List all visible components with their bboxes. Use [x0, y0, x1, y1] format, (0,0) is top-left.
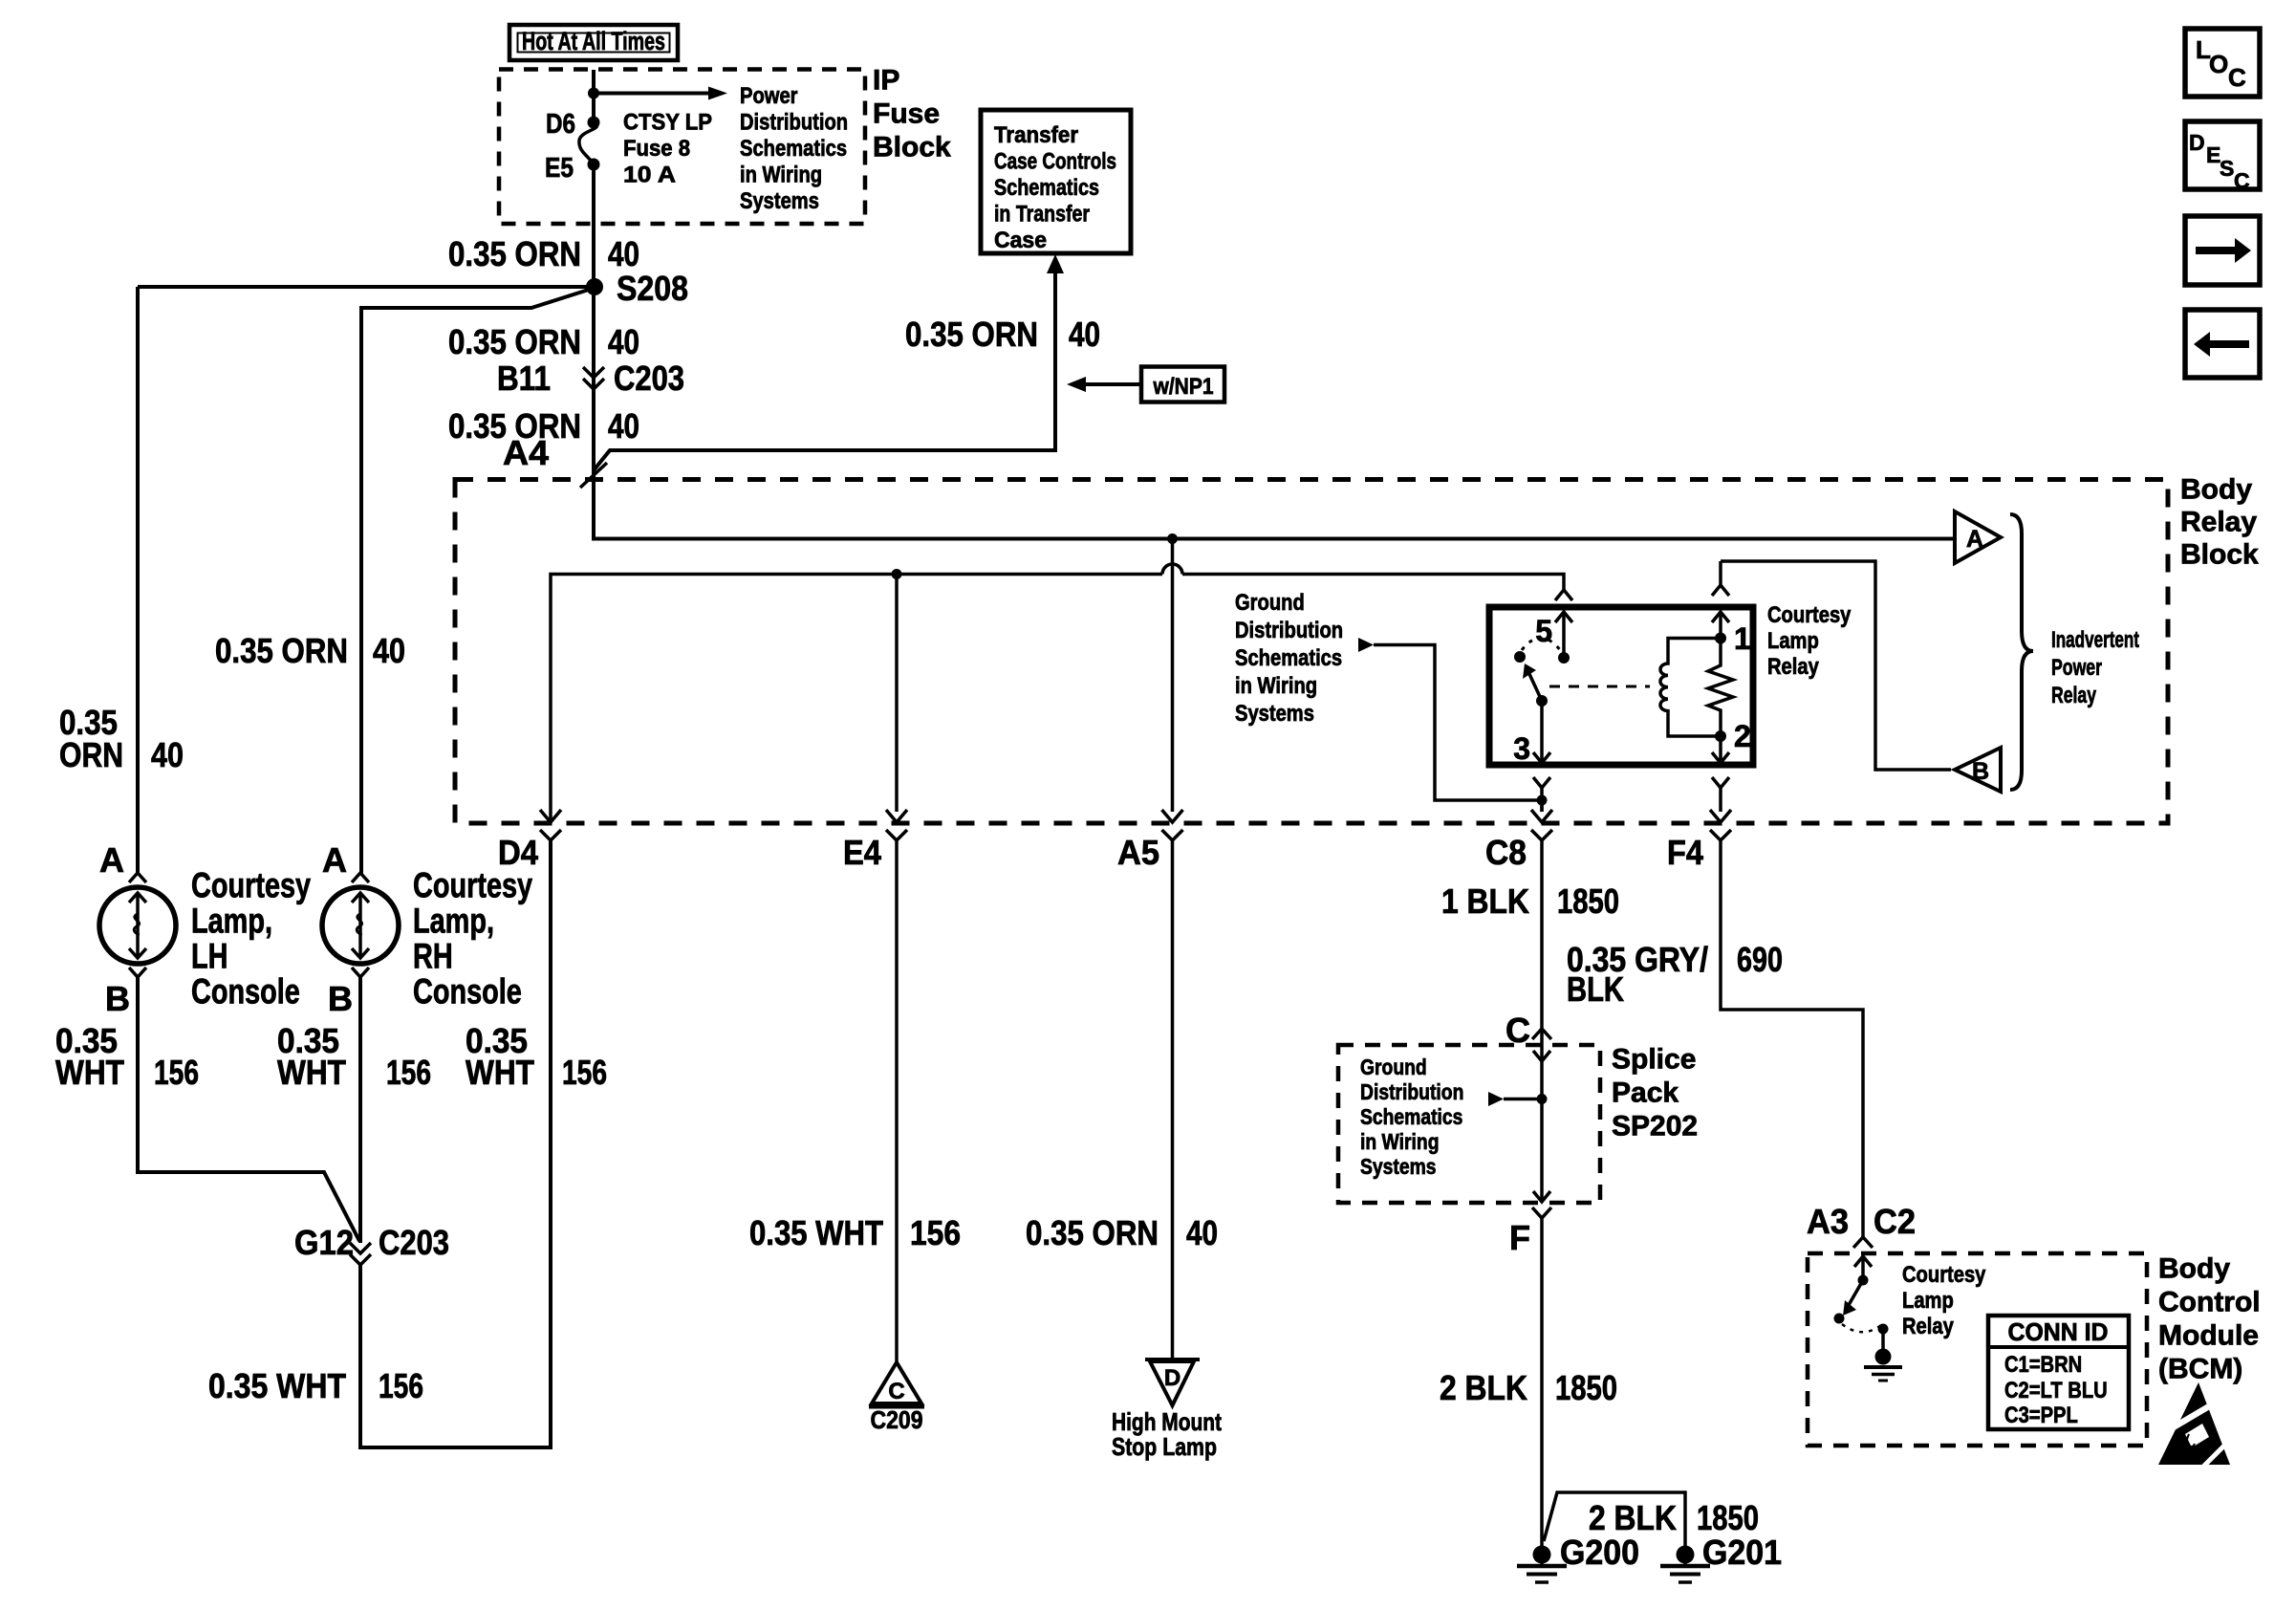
svg-text:Distribution: Distribution	[740, 110, 848, 136]
svg-text:ORN: ORN	[59, 735, 123, 774]
connector C209 triangle	[872, 1362, 921, 1403]
svg-text:A: A	[1966, 526, 1983, 553]
wire: RH lamp B to G12 connector	[358, 977, 362, 1243]
svg-text:IP: IP	[873, 65, 899, 97]
wire: feed inside relay block (A4 to inadvertent power relay A)	[594, 479, 1955, 539]
arrowhead: into Transfer Case box	[1047, 254, 1064, 273]
BCM courtesy lamp relay driver blade	[1849, 1280, 1863, 1305]
relay suppression resistor	[1708, 639, 1733, 737]
svg-text:Relay: Relay	[1902, 1314, 1954, 1339]
triangle B: inadvertent power relay input	[1955, 748, 2001, 792]
svg-text:in Wiring: in Wiring	[1360, 1129, 1440, 1154]
svg-text:Relay: Relay	[1767, 654, 1819, 680]
svg-text:CONN ID: CONN ID	[2008, 1317, 2109, 1346]
svg-text:LH: LH	[191, 937, 228, 976]
arrow: E4 wire into block edge	[886, 810, 907, 822]
svg-text:10 A: 10 A	[623, 163, 676, 188]
connector: D4 below block edge	[540, 830, 561, 840]
BCM input arrow from A3/C2	[1861, 1258, 1865, 1278]
svg-text:C: C	[2234, 168, 2250, 193]
svg-text:D4: D4	[498, 833, 538, 872]
connector: pin5 feed into relay	[1555, 590, 1572, 600]
legend box forward arrow	[2185, 216, 2260, 285]
svg-text:A: A	[322, 840, 347, 880]
connector: C8 below block edge	[1531, 830, 1552, 840]
wire: F4 to BCM A3/C2	[1721, 840, 1863, 1237]
svg-text:Fuse 8: Fuse 8	[623, 136, 690, 162]
svg-text:40: 40	[1186, 1213, 1218, 1252]
svg-text:A: A	[99, 840, 124, 880]
svg-text:B: B	[105, 979, 130, 1018]
connector A4 slash symbol	[580, 463, 607, 488]
svg-text:E5: E5	[545, 153, 574, 184]
wire: C8 to splice pack	[1540, 840, 1544, 1029]
svg-text:Transfer: Transfer	[994, 122, 1078, 148]
BCM driver dotted throw arc	[1842, 1324, 1881, 1332]
svg-text:Pack: Pack	[1612, 1077, 1679, 1109]
connector: courtesy lamp LH terminal B	[129, 968, 146, 977]
connector: courtesy lamp LH terminal A	[129, 873, 146, 882]
svg-text:B11: B11	[497, 359, 551, 398]
wire: branch from A4 to transfer case controls	[594, 272, 1055, 470]
svg-text:S208: S208	[617, 269, 688, 308]
svg-text:Case Controls: Case Controls	[994, 149, 1116, 175]
Transfer Case Controls reference box	[981, 110, 1131, 253]
node: junction with ground distribution tap	[1537, 795, 1548, 806]
relay switch dotted throw arc	[1522, 638, 1561, 651]
relay switch blade with arrowhead	[1529, 674, 1542, 701]
svg-text:C203: C203	[379, 1223, 449, 1262]
svg-text:0.35 ORN: 0.35 ORN	[1026, 1213, 1159, 1252]
svg-text:F4: F4	[1667, 833, 1703, 872]
svg-text:Systems: Systems	[740, 188, 819, 214]
arrow: into splice pack	[1533, 1051, 1550, 1061]
svg-text:G12: G12	[294, 1223, 354, 1262]
svg-text:Power: Power	[740, 83, 798, 109]
svg-text:1850: 1850	[1555, 1368, 1617, 1407]
svg-text:B: B	[328, 979, 353, 1018]
svg-text:3: 3	[1513, 731, 1530, 766]
wire: pin2 to F4 edge	[1719, 788, 1722, 812]
relay switch pivot	[1536, 695, 1548, 707]
svg-text:2: 2	[1734, 719, 1751, 753]
svg-text:Control: Control	[2158, 1287, 2261, 1318]
svg-text:5: 5	[1535, 614, 1552, 648]
wire: battery feed vertical into fuse	[592, 70, 596, 122]
svg-text:BLK: BLK	[1567, 969, 1624, 1009]
BCM relay contact to ground	[1878, 1324, 1889, 1335]
svg-text:156: 156	[379, 1366, 423, 1405]
node S208 splice	[586, 278, 603, 295]
connector: A5 below block edge	[1162, 830, 1183, 840]
svg-text:Relay: Relay	[2051, 683, 2096, 708]
svg-text:1 BLK: 1 BLK	[1441, 881, 1529, 921]
svg-text:Systems: Systems	[1360, 1154, 1437, 1179]
svg-text:0.35 WHT: 0.35 WHT	[749, 1213, 883, 1252]
svg-text:G201: G201	[1702, 1533, 1782, 1572]
arrow: C8 wire into block edge	[1540, 800, 1544, 812]
svg-text:Inadvertent: Inadvertent	[2051, 627, 2139, 653]
svg-text:2 BLK: 2 BLK	[1589, 1498, 1677, 1537]
svg-text:Schematics: Schematics	[994, 175, 1099, 201]
svg-text:in Wiring: in Wiring	[740, 163, 822, 188]
svg-text:690: 690	[1737, 940, 1783, 979]
node: junction to E4 wire	[892, 569, 902, 579]
svg-text:C3=PPL: C3=PPL	[2004, 1403, 2078, 1428]
svg-text:Distribution: Distribution	[1360, 1079, 1463, 1104]
wire: C into splice pack	[1540, 1029, 1544, 1096]
triangle A: inadvertent power relay output	[1955, 511, 2001, 563]
svg-text:1850: 1850	[1557, 881, 1619, 921]
svg-text:Relay: Relay	[2180, 507, 2257, 538]
legend box LOC	[2185, 29, 2260, 97]
CONN ID table	[1988, 1316, 2129, 1429]
svg-text:B: B	[1972, 758, 1989, 785]
svg-text:Ground: Ground	[1235, 590, 1305, 616]
connector: relay pin2/F4 below relay case	[1712, 777, 1729, 788]
svg-text:0.35 ORN: 0.35 ORN	[215, 631, 348, 670]
svg-text:Lamp: Lamp	[1902, 1288, 1954, 1314]
svg-text:Console: Console	[413, 972, 522, 1012]
connector A3/C2 above BCM	[1853, 1237, 1873, 1248]
svg-text:Splice: Splice	[1612, 1044, 1696, 1076]
svg-text:156: 156	[562, 1053, 607, 1092]
wire: F to ground G200	[1540, 1218, 1544, 1548]
svg-text:40: 40	[608, 406, 639, 446]
svg-text:Schematics: Schematics	[740, 136, 847, 162]
svg-text:C209: C209	[871, 1405, 923, 1434]
svg-text:Schematics: Schematics	[1360, 1104, 1462, 1129]
wire: power distribution branch	[594, 92, 710, 96]
svg-text:A5: A5	[1117, 833, 1159, 872]
connector: relay pin3 below relay case	[1533, 777, 1550, 788]
connector C203 pin B11 symbol	[583, 367, 604, 378]
svg-text:Block: Block	[873, 132, 951, 163]
svg-text:CTSY LP: CTSY LP	[623, 110, 712, 136]
BCM driver fixed contact	[1834, 1314, 1845, 1324]
svg-text:C: C	[2228, 63, 2246, 92]
svg-text:0.35 WHT: 0.35 WHT	[208, 1366, 346, 1405]
svg-text:in Wiring: in Wiring	[1235, 673, 1317, 699]
connector: relay pin1 to inadvertent power relay B	[1712, 585, 1729, 596]
wire: E4 branch down to block edge	[895, 575, 899, 813]
courtesy lamp LH console bulb	[99, 887, 176, 964]
fuse F8 terminal D6	[588, 117, 600, 129]
svg-text:O: O	[2209, 50, 2228, 78]
connector F below splice pack	[1532, 1207, 1551, 1218]
callout arrow to ground distribution	[1358, 638, 1374, 652]
junction box: Hot At All Times header	[509, 25, 678, 60]
wire: S208 left branch to LH courtesy lamp	[138, 285, 595, 289]
brace: inadvertent power relay group	[2010, 514, 2033, 790]
svg-text:0.35 ORN: 0.35 ORN	[448, 234, 581, 273]
svg-text:156: 156	[386, 1053, 431, 1092]
svg-text:Distribution: Distribution	[1235, 618, 1343, 643]
svg-text:S: S	[2220, 156, 2234, 181]
svg-text:w/NP1: w/NP1	[1153, 374, 1214, 400]
relay pin 3 terminal	[1540, 701, 1544, 762]
connector: courtesy lamp RH terminal B	[352, 968, 369, 977]
svg-text:Lamp: Lamp	[1767, 628, 1819, 654]
svg-text:A3: A3	[1807, 1202, 1849, 1241]
svg-text:0.35 ORN: 0.35 ORN	[448, 322, 581, 361]
svg-text:1: 1	[1734, 621, 1751, 656]
svg-text:C2=LT BLU: C2=LT BLU	[2004, 1378, 2108, 1403]
ground G201	[1677, 1546, 1695, 1564]
svg-text:WHT: WHT	[55, 1053, 124, 1092]
svg-text:Power: Power	[2051, 655, 2102, 681]
svg-text:Courtesy: Courtesy	[1902, 1262, 1986, 1288]
IP Fuse Block dashed outline	[499, 70, 865, 225]
svg-text:1850: 1850	[1697, 1498, 1759, 1537]
arrow: D4 wire into block edge	[540, 810, 561, 822]
connector: F4 below block edge	[1710, 830, 1731, 840]
wire: branch to ground G201	[1544, 1492, 1685, 1548]
wire: S208 diagonal branch to RH courtesy lamp	[361, 288, 595, 874]
Body Control Module dashed outline	[1808, 1253, 2147, 1446]
svg-text:Console: Console	[191, 972, 300, 1012]
ESD sensitive device symbol	[2158, 1382, 2230, 1465]
Body Relay Block dashed outline	[455, 480, 2168, 824]
svg-text:F: F	[1509, 1218, 1530, 1257]
svg-text:C2: C2	[1874, 1202, 1916, 1241]
svg-text:SP202: SP202	[1612, 1111, 1698, 1142]
legend box DESC	[2185, 121, 2260, 189]
wire: A5 to high mount stop lamp	[1171, 840, 1175, 1359]
node: branch junction to power distribution	[588, 88, 599, 99]
wire: fuse output down to S208	[592, 164, 596, 287]
relay switch fixed contact	[1514, 651, 1526, 663]
wire: S208 down to connector C203 B11	[592, 287, 596, 539]
relay coil	[1660, 639, 1721, 737]
svg-text:A4: A4	[503, 433, 549, 472]
wire: G12 to D4 return	[360, 840, 551, 1447]
svg-text:C203: C203	[614, 359, 684, 398]
connector D triangle: high mount stop lamp feed	[1145, 1358, 1200, 1361]
svg-text:Ground: Ground	[1360, 1055, 1427, 1079]
arrow: A5 wire into block edge	[1162, 810, 1183, 822]
svg-text:WHT: WHT	[277, 1053, 346, 1092]
svg-text:Schematics: Schematics	[1235, 645, 1342, 671]
relay pin 2 terminal	[1715, 730, 1726, 742]
ground G200	[1533, 1546, 1551, 1564]
svg-text:in Transfer: in Transfer	[994, 202, 1090, 228]
Splice Pack SP202 dashed outline	[1338, 1045, 1600, 1203]
svg-text:RH: RH	[413, 937, 453, 976]
svg-text:40: 40	[373, 631, 405, 670]
arrow: F4 wire into block edge	[1710, 810, 1731, 822]
svg-text:Lamp,: Lamp,	[191, 902, 272, 941]
node SP202 splice junction	[1537, 1094, 1548, 1104]
svg-text:(BCM): (BCM)	[2158, 1354, 2242, 1385]
fuse F8 CTSY LP element	[579, 122, 597, 164]
svg-text:Body: Body	[2180, 474, 2252, 506]
svg-text:Hot At All Times: Hot At All Times	[522, 27, 665, 55]
courtesy lamp RH console bulb	[322, 887, 399, 964]
wire: courtesy lamp relay pin5 feed (D4/E4 bus)	[551, 575, 1162, 824]
relay pin 1 terminal	[1715, 633, 1726, 644]
svg-text:G200: G200	[1560, 1533, 1639, 1572]
svg-text:E4: E4	[843, 833, 881, 872]
connector C above splice pack	[1532, 1029, 1551, 1039]
svg-text:D: D	[1164, 1365, 1180, 1391]
wire: LH lamp B to G12 connector	[138, 977, 359, 1241]
arrowhead: to Power Distribution Schematics	[708, 87, 727, 100]
svg-text:D: D	[2189, 130, 2205, 155]
svg-text:40: 40	[608, 234, 639, 273]
svg-text:C: C	[888, 1379, 904, 1404]
node: junction to A5 high mount stop lamp	[1167, 533, 1178, 544]
relay mechanical link dashed	[1549, 685, 1650, 688]
svg-text:Courtesy: Courtesy	[191, 866, 311, 905]
relay pin 5 terminal	[1555, 612, 1572, 622]
courtesy lamp relay case	[1489, 607, 1753, 765]
svg-text:Systems: Systems	[1235, 701, 1314, 727]
svg-text:Lamp,: Lamp,	[413, 902, 494, 941]
legend box back arrow	[2185, 310, 2260, 378]
svg-text:156: 156	[910, 1213, 961, 1252]
arrow: w/NP1 applies to this wire	[1086, 382, 1141, 386]
BCM internal ground	[1881, 1329, 1885, 1350]
svg-text:WHT: WHT	[466, 1053, 534, 1092]
svg-text:Case: Case	[994, 228, 1047, 253]
wire: SP202 to F outlet	[1540, 1099, 1544, 1202]
option tag box w/NP1	[1141, 367, 1224, 402]
svg-text:40: 40	[151, 735, 184, 774]
svg-text:2 BLK: 2 BLK	[1440, 1368, 1527, 1407]
wire: A5 branch down to block edge	[1171, 539, 1175, 813]
svg-text:Courtesy: Courtesy	[1767, 602, 1852, 628]
svg-text:Body: Body	[2158, 1253, 2230, 1285]
fuse F8 terminal E5	[588, 159, 600, 171]
svg-text:D6: D6	[546, 109, 575, 140]
connector: E4 below block edge	[886, 830, 907, 840]
connector C203 pin G12 symbol	[350, 1243, 371, 1253]
svg-text:40: 40	[608, 322, 639, 361]
svg-text:156: 156	[154, 1053, 199, 1092]
svg-text:0.35 ORN: 0.35 ORN	[905, 315, 1038, 354]
wire: E4 to C209	[895, 840, 899, 1362]
connector: courtesy lamp RH terminal A	[352, 873, 369, 882]
svg-text:C1=BRN: C1=BRN	[2004, 1352, 2082, 1378]
svg-text:Stop Lamp: Stop Lamp	[1112, 1432, 1217, 1461]
svg-text:40: 40	[1069, 315, 1100, 354]
svg-text:C8: C8	[1485, 833, 1527, 872]
callout arrow to splice SP202	[1488, 1092, 1504, 1106]
wire: pin3 to C8 edge	[1540, 788, 1544, 812]
svg-text:Fuse: Fuse	[873, 98, 940, 130]
svg-text:Block: Block	[2180, 539, 2259, 571]
svg-text:Module: Module	[2158, 1320, 2259, 1352]
